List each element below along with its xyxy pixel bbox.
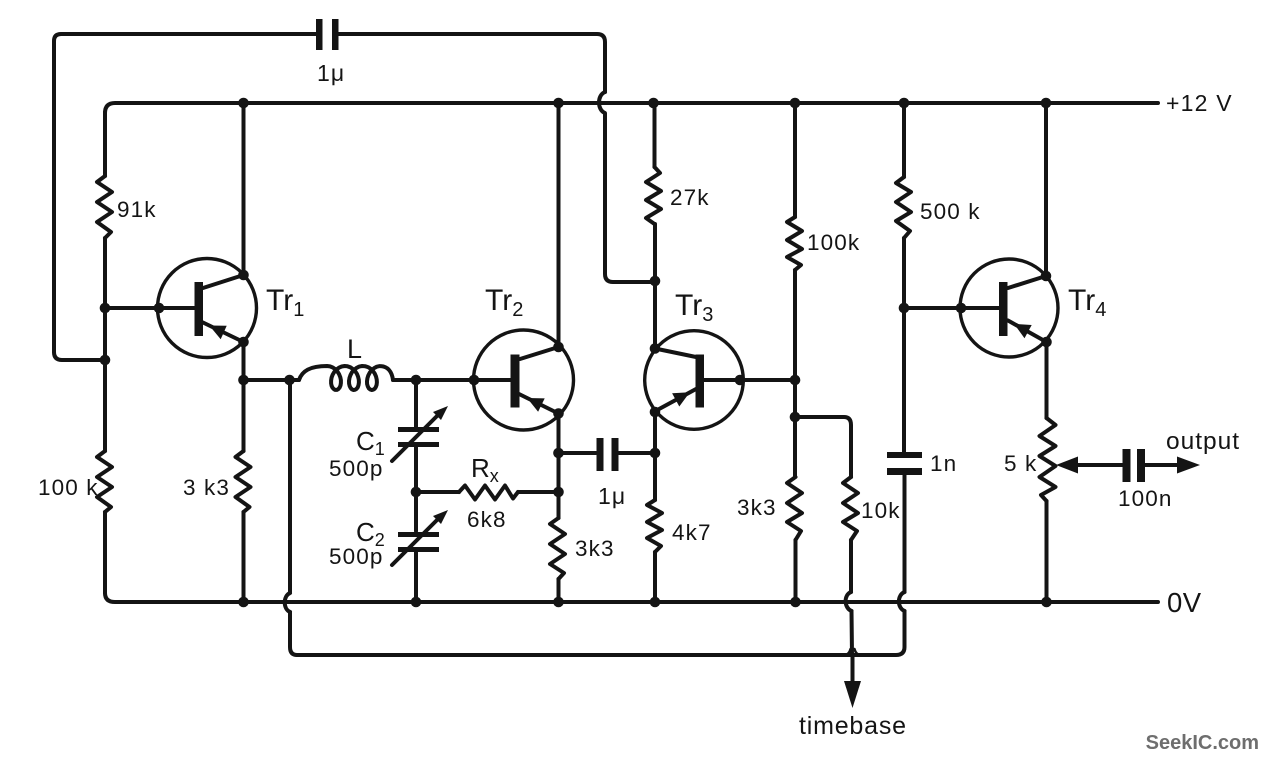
svg-text:27k: 27k xyxy=(670,185,710,210)
svg-text:Tr1: Tr1 xyxy=(266,284,304,321)
svg-text:6k8: 6k8 xyxy=(467,507,507,532)
svg-text:500 k: 500 k xyxy=(920,199,981,224)
svg-text:4k7: 4k7 xyxy=(672,520,712,545)
svg-text:500p: 500p xyxy=(329,456,383,481)
svg-text:1n: 1n xyxy=(930,451,957,476)
svg-text:L: L xyxy=(347,334,362,364)
svg-text:5 k: 5 k xyxy=(1004,451,1037,476)
svg-text:C1: C1 xyxy=(356,426,385,459)
svg-text:Tr2: Tr2 xyxy=(485,284,523,321)
svg-text:Tr3: Tr3 xyxy=(675,289,713,326)
svg-text:91k: 91k xyxy=(117,197,157,222)
svg-text:+12 V: +12 V xyxy=(1166,90,1233,116)
svg-text:100k: 100k xyxy=(807,230,860,255)
svg-text:SeekIC.com: SeekIC.com xyxy=(1146,732,1259,754)
svg-text:timebase: timebase xyxy=(799,712,907,740)
svg-text:C2: C2 xyxy=(356,517,385,550)
svg-text:0V: 0V xyxy=(1167,587,1202,618)
svg-text:output: output xyxy=(1166,428,1240,455)
svg-text:3k3: 3k3 xyxy=(737,495,777,520)
svg-text:1μ: 1μ xyxy=(598,483,626,509)
svg-text:3 k3: 3 k3 xyxy=(183,475,230,500)
svg-text:100n: 100n xyxy=(1118,486,1172,511)
svg-text:Rx: Rx xyxy=(471,453,499,486)
svg-text:1μ: 1μ xyxy=(317,60,345,86)
svg-text:Tr4: Tr4 xyxy=(1068,284,1106,321)
svg-text:100 k: 100 k xyxy=(38,475,99,500)
svg-text:10k: 10k xyxy=(861,498,901,523)
svg-text:3k3: 3k3 xyxy=(575,536,615,561)
